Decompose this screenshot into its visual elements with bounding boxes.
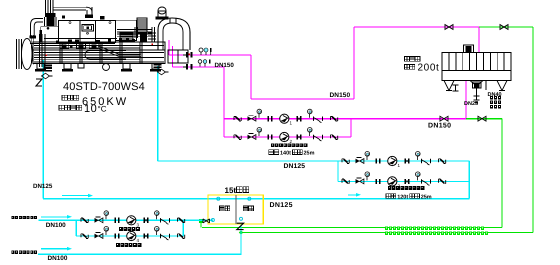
svg-text:1: 1 (398, 163, 401, 168)
svg-text:DN150: DN150 (330, 92, 351, 99)
svg-text:DN150: DN150 (428, 123, 451, 130)
svg-text:200t: 200t (418, 62, 440, 73)
svg-text:°C: °C (98, 105, 107, 114)
svg-text:DN125: DN125 (270, 202, 293, 209)
svg-text:25m: 25m (304, 151, 315, 157)
svg-text:DN125: DN125 (33, 183, 53, 190)
svg-text:DN150: DN150 (215, 62, 235, 69)
svg-text:15t: 15t (225, 186, 237, 195)
svg-text:DN100: DN100 (46, 222, 66, 229)
svg-text:3: 3 (137, 222, 140, 227)
svg-text:DN125: DN125 (284, 163, 306, 170)
svg-text:4: 4 (137, 238, 140, 243)
svg-text:25m: 25m (421, 194, 432, 200)
svg-text:1: 1 (290, 121, 293, 126)
svg-text:140t: 140t (280, 151, 291, 157)
svg-text:2: 2 (290, 139, 293, 144)
svg-text:120t: 120t (397, 194, 408, 200)
svg-text:10: 10 (84, 103, 97, 115)
svg-text:40STD-700WS4: 40STD-700WS4 (63, 81, 145, 93)
svg-text:DN100: DN100 (48, 255, 68, 262)
